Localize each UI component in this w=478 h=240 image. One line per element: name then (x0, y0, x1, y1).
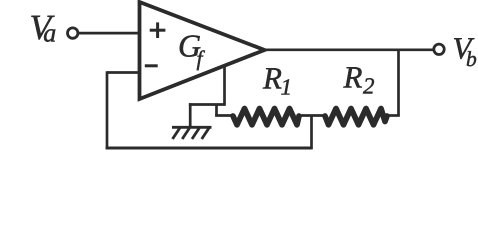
wire: riser from bottom wire to R1-R2 junction (310, 116, 313, 150)
resistor R1 white band (234, 106, 298, 123)
wire: feedback drop from output wire to R2 right end (397, 49, 400, 116)
svg-text:f: f (197, 46, 206, 70)
svg-text:R: R (343, 60, 363, 95)
wire: rail from tap vertical down-leg to R1 left (215, 105, 218, 116)
svg-text:b: b (466, 47, 477, 71)
input terminal node Va (68, 28, 78, 38)
svg-text:a: a (43, 19, 56, 48)
svg-text:1: 1 (281, 75, 293, 100)
wire: input terminal to op-amp plus input (79, 32, 140, 35)
op-amp U1 (gain block Gf) (140, 2, 265, 99)
wire: horizontal to ground leg (189, 103, 226, 106)
wire: left feedback vertical (106, 71, 109, 149)
wire: R2 right lead to feedback drop (385, 114, 400, 117)
wire: ground leg vertical (189, 103, 192, 127)
op-amp plus input marking (150, 22, 166, 38)
svg-text:R: R (262, 61, 282, 96)
resistor R1 zigzag (233, 109, 299, 125)
op-amp minus input marking (145, 64, 158, 67)
wire: minus input stub (107, 71, 140, 74)
resistor R2 white band (325, 106, 386, 123)
wire: tap from op-amp bottom edge down (223, 67, 226, 105)
wire: R1 right to R2 left junction (297, 114, 326, 117)
resistor R2 zigzag (325, 109, 387, 125)
wire: output from apex to output terminal (262, 48, 434, 51)
svg-text:2: 2 (363, 74, 375, 99)
output terminal node Vb (434, 44, 444, 54)
ground symbol (172, 127, 212, 139)
wire: bottom feedback horizontal (106, 147, 312, 150)
